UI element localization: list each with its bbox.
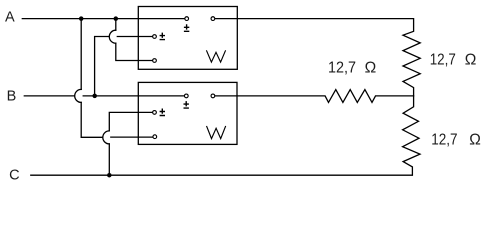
svg-text:Ω: Ω bbox=[465, 51, 477, 68]
svg-text:C: C bbox=[9, 167, 19, 183]
svg-text:A: A bbox=[5, 10, 15, 26]
svg-text:Ω: Ω bbox=[365, 60, 377, 77]
svg-text:Ω: Ω bbox=[469, 132, 481, 149]
svg-text:12,7: 12,7 bbox=[430, 51, 456, 68]
svg-text:12,7: 12,7 bbox=[431, 132, 457, 149]
svg-text:12,7: 12,7 bbox=[328, 60, 356, 77]
svg-text:B: B bbox=[7, 88, 17, 104]
